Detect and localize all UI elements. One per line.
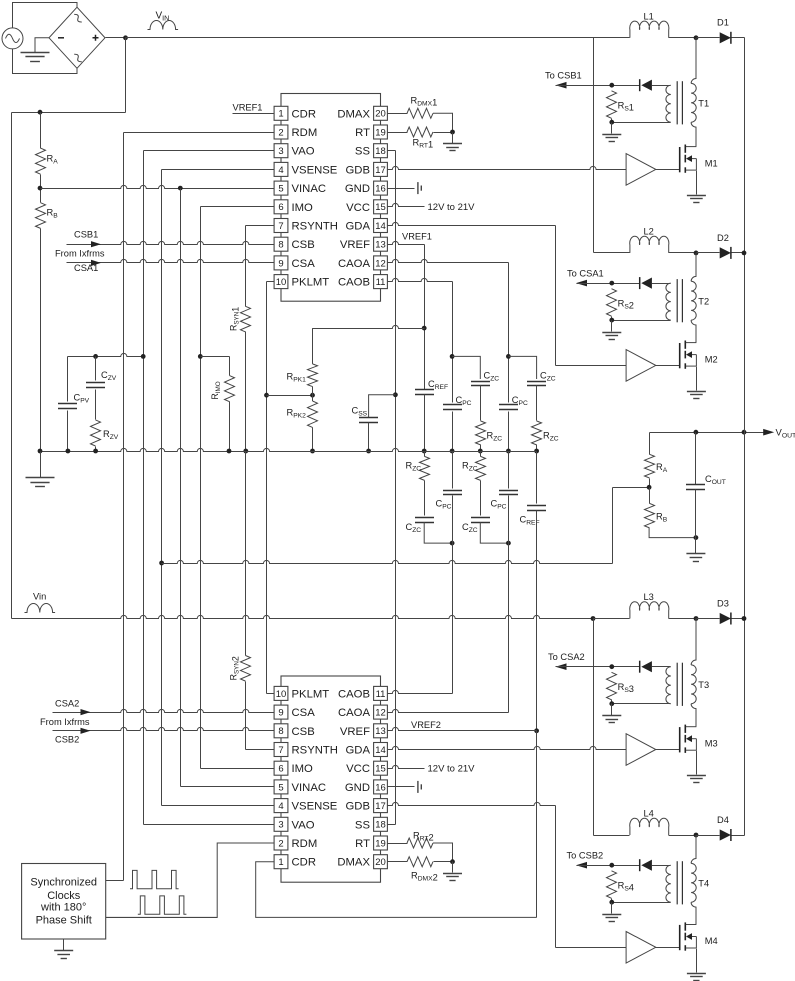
junction rail D3 [742,616,747,621]
wire CAOB2 net upper [452,452,454,489]
label RZC (A1) [543,431,559,443]
wire node to D4 [697,835,720,837]
junction phase 2 node [694,251,699,256]
wire SS net vertical [395,151,397,825]
svg-text:11: 11 [376,277,386,288]
wire CAOA2 net down [508,496,510,713]
svg-text:VCC: VCC [346,202,370,214]
wire RS1 bottom row [612,122,671,124]
label CPC (A2) [491,498,507,510]
junction VAO node [141,354,146,359]
label T1 [698,98,709,108]
transformer T1 primary [691,83,696,122]
junction RS3 top [609,664,614,669]
wire IMO2 row [201,768,275,770]
arrowhead To CSA1 [576,280,587,287]
label RPK1 [287,372,307,384]
wire VAO net vertical [143,151,145,825]
wire VCC1 row [388,203,425,206]
wire bridge minus to ground [35,38,49,52]
label RIMO [210,381,222,399]
chassis return symbol (U2 GND) [418,781,421,793]
label CZC (B2) [406,522,422,534]
U2 pin 17 GDB [346,799,388,813]
ground (M2) [687,392,706,399]
wire output rail [744,38,746,836]
svg-text:14: 14 [375,745,386,756]
ground (RS1) [602,135,621,142]
wire clock box lower port [106,917,218,919]
wire CZC to RZC (B1) [480,386,482,421]
wire RA to mid [649,479,651,488]
svg-text:18: 18 [375,820,386,831]
wire CPC A1 to bus [508,412,510,452]
junction CPC B1 bus [450,449,455,454]
junction RT/DMAX [450,130,455,135]
wire M3 source to ground [696,751,698,775]
U2 pin 12 CAOA [338,705,387,719]
U1 pin 16 GND [345,181,388,195]
svg-text:6: 6 [278,202,283,213]
wire RIMO tap across [201,356,230,358]
resistor RB (output divider) [645,503,655,527]
U1 pin 9 CSA [274,256,315,270]
svg-text:8: 8 [278,726,283,737]
junction rail D2 [742,251,747,256]
wire RZC A1 to bus [536,445,538,452]
svg-text:CAOB: CAOB [338,277,370,289]
wire CREF2 upper [536,452,538,504]
svg-text:18: 18 [375,146,386,157]
wire CZV to RZV [95,390,97,420]
wire node down to T1 [691,38,696,84]
svg-text:10: 10 [276,277,287,288]
wire L1 to node [669,37,697,39]
resistor RRT2 [407,838,433,848]
svg-text:RS1: RS1 [618,100,634,112]
label L2 [644,226,654,236]
svg-text:CSB1: CSB1 [74,230,98,240]
capacitor CZC (B2) [415,518,434,523]
wire RRT2 to corner [433,843,453,862]
wire GND1 row [388,188,415,190]
ground (bridge) [21,53,50,62]
clock waveform symbol (lower) [138,896,187,914]
label To CSA2 [548,652,585,662]
svg-text:L1: L1 [644,11,654,21]
junction RZV bus [93,449,98,454]
label CSA2 [55,698,79,708]
wire RS2 bottom row [612,320,671,322]
wire RSYNTH2 row [246,749,275,751]
junction CPC A1 bus [506,449,511,454]
wire row to L2 [594,252,630,254]
junction lower rail drop [591,616,596,621]
resistor RPK2 [308,401,318,427]
svg-text:T3: T3 [698,680,709,690]
wire RDMX1 to corner [433,113,453,132]
capacitor CPC (A1) [499,405,518,410]
wire mid to RB [649,488,651,504]
wire IMO row [201,206,275,208]
svg-text:VAO: VAO [292,146,315,158]
junction RIMO tap [198,354,203,359]
transformer T1 secondary [666,85,671,122]
U1 pin 19 RT [355,125,387,139]
svg-text:RDM: RDM [292,838,318,850]
svg-text:D2: D2 [717,233,729,243]
U1 pin 10 PKLMT [274,275,329,289]
wire row to L4 [594,835,630,837]
transformer T2 secondary [666,283,671,320]
wire RZC to CZC (A2) [480,481,482,516]
label CZC (A2) [462,522,478,534]
symbol Vin sine [25,604,56,613]
svg-text:RRT2: RRT2 [413,830,434,842]
svg-text:VSENSE: VSENSE [292,164,338,176]
junction VREF1/RPK1 [422,326,427,331]
label 12V to 21V (U2) [428,763,476,774]
U2 pin 16 GND [345,780,388,794]
svg-text:T1: T1 [698,98,709,108]
label CZV [101,370,117,382]
U2 pin 2 RDM [274,836,317,850]
wire COUT bottom lead [695,490,697,538]
wire GDB2 down [555,806,557,948]
label D4 [717,815,729,825]
svg-text:CSA: CSA [292,707,316,719]
wire GDB2 row [388,802,556,805]
svg-text:CZC: CZC [406,522,422,534]
svg-text:7: 7 [278,221,283,232]
U2 pin 6 IMO [274,761,313,775]
wire CAOB2 net down [452,496,454,694]
wire to RA [40,113,42,149]
junction VINAC line [178,186,183,191]
wire AC top to bridge [13,3,78,28]
wire driver 4 to gate [656,947,680,949]
svg-text:RT: RT [355,127,370,139]
svg-text:VOUT: VOUT [776,428,795,440]
label RS2 [618,298,634,310]
U2 pin 11 CAOB [338,686,387,700]
svg-text:16: 16 [375,782,386,793]
label Vin [33,592,46,602]
wire node down to T2 [691,253,696,281]
svg-text:T2: T2 [698,296,709,306]
wire RZC to CZC (B2) [424,481,426,516]
U2 pin 20 DMAX [337,855,387,869]
transformer T4 core [677,861,682,904]
wire CAOB1 net down [452,282,454,403]
wire row to L3 [594,618,630,620]
wire RZV to bus [95,447,97,452]
svg-text:D3: D3 [717,598,729,608]
wire RDM net vertical [123,133,125,881]
junction CAOB1 branch [450,354,455,359]
U2 pin 18 SS [355,817,387,831]
U2 pin 14 GDA [346,743,388,757]
svg-text:CSS: CSS [352,405,368,417]
wire GND2 row [388,786,415,788]
wire CAOA1 row [388,259,509,262]
U1 pin 15 VCC [346,200,387,214]
ground (RS4) [602,915,621,922]
label CPC (B1) [456,395,472,407]
label D2 [717,233,729,243]
U1 pin 11 CAOB [338,275,387,289]
ground (RT2/RDMX2) [443,874,462,881]
U2 pin 8 CSB [274,724,315,738]
resistor RIMO [225,376,235,402]
label CZC (A1) [540,370,556,382]
svg-text:CDR: CDR [292,108,316,120]
arrowhead VOUT [763,429,774,436]
wire VREF2 row [388,727,537,730]
svg-text:1: 1 [278,857,283,868]
svg-text:19: 19 [375,127,386,138]
wire RPK1 to node [312,387,314,396]
junction output gnd node [694,535,699,540]
wire left column down [11,113,13,619]
wire CSA1 row [67,259,275,262]
wire GDA1 to driver 2 [556,365,627,367]
svg-text:From Ixfrms: From Ixfrms [40,717,90,727]
svg-text:with 180°: with 180° [40,901,86,913]
junction RT2/DMAX2 [450,859,455,864]
wire RS2 gnd stub [611,321,613,332]
capacitor CZC (B1) [471,382,490,386]
arrowhead To CSA2 [556,663,567,670]
wire COUT top lead [695,433,697,485]
capacitor CZC (A1) [527,382,546,386]
gate driver 3 [626,734,656,766]
svg-text:RIMO: RIMO [210,381,222,399]
svg-text:CSA: CSA [292,258,316,270]
label CSS [352,405,368,417]
svg-text:RS2: RS2 [618,298,634,310]
svg-text:9: 9 [278,258,283,269]
junction phase 3 node [694,616,699,621]
svg-text:CPC: CPC [491,498,507,510]
resistor RZC (B1) [476,421,486,445]
wire rectifier output across [12,112,126,114]
U1 pin 6 IMO [274,200,313,214]
junction phase 1 node [694,35,699,40]
junction RSYN bus [243,449,248,454]
svg-text:COUT: COUT [705,474,726,486]
diode D2s (aux) [640,277,652,289]
diode D1s (aux) [640,79,652,91]
label RSYN2 [229,656,241,680]
svg-text:RS3: RS3 [618,682,634,694]
wire CZC to RZC (A1) [536,386,538,421]
svg-text:M4: M4 [705,936,718,946]
synchronized clock source box [22,864,106,940]
label To CSB1 [545,71,582,81]
svg-text:6: 6 [278,764,283,775]
resistor RZV [91,420,101,446]
wire aux row 1 [556,85,640,87]
wire PKLMT2 stub [267,693,275,695]
arrowhead CSA2 [81,709,91,715]
wire GDA1 down [555,226,557,366]
junction CAOA1 branch [506,354,511,359]
U2 pin 4 VSENSE [274,799,338,813]
svg-text:RPK1: RPK1 [287,372,307,384]
junction VINAC divider [38,186,43,191]
junction RS3 bottom [609,701,614,706]
diode D3s (aux) [640,661,652,673]
capacitor CREF (U2) [527,506,546,511]
resistor RS3 [607,672,617,699]
svg-text:RA: RA [656,462,668,474]
svg-text:RZC: RZC [487,431,503,443]
label RRT2 [413,830,434,842]
wire drop to phase 4 [593,619,595,836]
wire RS4 lead [611,899,613,903]
wire RS4 gnd stub [611,903,613,914]
transformer T4 primary [691,863,696,902]
svg-text:D1: D1 [717,18,729,28]
label CPC (B2) [436,498,452,510]
label VREF1 (CDR stub) [233,102,263,112]
label M3 [705,738,718,748]
wire PKLMT tap across [267,395,313,397]
svg-text:CZC: CZC [540,370,556,382]
junction divider mid [647,485,652,490]
wire aux diode to T2 [652,283,671,285]
transformer T3 primary [691,665,696,704]
junction top rail / divider feed [123,35,128,40]
svg-text:M1: M1 [705,158,718,168]
transistor M4 [680,922,697,950]
svg-text:SS: SS [355,819,371,831]
ground (clock box) [54,951,73,959]
label CREF (U2) [520,514,540,526]
label To CSA1 [567,268,604,278]
chassis return symbol (U1 GND) [418,182,421,194]
wire aux diode to T1 [652,85,671,87]
label L1 [644,11,654,21]
capacitor CPC (A2) [499,491,518,495]
transistor M1 [680,145,697,173]
label L4 [644,809,654,819]
label CPC (A1) [512,395,528,407]
wire RS3 lead [611,700,613,704]
transformer T1 core [677,81,682,124]
gate driver 4 [626,932,656,964]
wire GDB1 row to driver [388,166,627,169]
diode D4s (aux) [640,859,652,871]
wire RSYN2 to U2 [245,682,247,750]
transformer T3 core [677,663,682,706]
wire RDM2 route [106,843,275,917]
U1 pin 12 CAOA [338,256,387,270]
wire clock box ground stub [63,940,65,951]
U1 pin 4 VSENSE [274,162,338,176]
U1 pin 3 VAO [274,144,315,158]
wire L4 to node [669,835,697,837]
transformer T3 secondary [666,667,671,704]
svg-text:1: 1 [278,109,283,120]
wire CAOA2 to U2 pin12 [388,709,509,712]
wire RS4 bottom row [612,902,671,904]
label T3 [698,680,709,690]
svg-text:L3: L3 [644,592,654,602]
junction RPK node [310,393,315,398]
wire RB to bottom [649,528,696,538]
wire node down to T3 [691,619,696,665]
svg-text:RSYNTH: RSYNTH [292,221,338,233]
wire CAOA2 net upper [508,452,510,489]
label RSYN1 [229,307,241,331]
wire node to D1 [697,37,720,39]
capacitor CPC (phase B1) [443,405,462,410]
label RPK2 [287,408,307,420]
wire lower rail [12,615,594,618]
wire VAO2 row [144,824,275,826]
resistor RPK1 [308,364,318,387]
svg-text:DMAX: DMAX [337,857,370,869]
wire CZC A2 to node [480,522,508,543]
svg-text:RZV: RZV [103,429,119,441]
gate driver 1 [626,154,656,186]
wire VAO row [144,150,275,152]
svg-text:VREF: VREF [340,239,370,251]
label COUT [705,474,726,486]
wire VAO comp node [68,353,144,356]
svg-text:GDA: GDA [346,745,371,757]
wire L2 to node [669,252,697,254]
wire row to L1 [594,37,630,39]
wire RT junction to ground [452,133,454,144]
svg-text:CZC: CZC [462,522,478,534]
svg-text:T4: T4 [698,878,709,888]
wire M4 source to ground [696,949,698,973]
label RA (output) [656,462,668,474]
wire VINAC net vertical [180,189,182,787]
transistor M2 [680,341,697,369]
inductor L2 [630,236,669,253]
wire RPK1 top [312,328,314,364]
svg-text:L4: L4 [644,809,654,819]
svg-text:15: 15 [375,202,386,213]
label M2 [705,354,718,364]
wire aux row 4 [577,865,640,867]
wire CZC B2 to node [424,522,452,543]
wire analog ground bus [41,448,537,451]
junction VSENSE tie [159,561,164,566]
ground (RS2) [602,333,621,340]
label RS4 [618,880,634,892]
gate driver 2 [626,350,656,382]
wire T4 primary to drain [691,902,696,924]
wire VREF1 row [388,241,425,244]
svg-text:VREF: VREF [340,726,370,738]
svg-text:RSYN1: RSYN1 [229,307,241,331]
wire RS3 bottom row [612,703,671,705]
U2 pin 9 CSA [274,705,315,719]
wire RZC B1 to bus [480,445,482,452]
junction CREF bus [422,449,427,454]
label CPV [74,393,90,405]
capacitor CZV [86,383,105,388]
wire RS2 lead [611,317,613,321]
wire GDB2 to driver 4 [556,947,627,949]
svg-text:IMO: IMO [292,763,314,775]
wire T2 primary to drain [691,320,696,343]
